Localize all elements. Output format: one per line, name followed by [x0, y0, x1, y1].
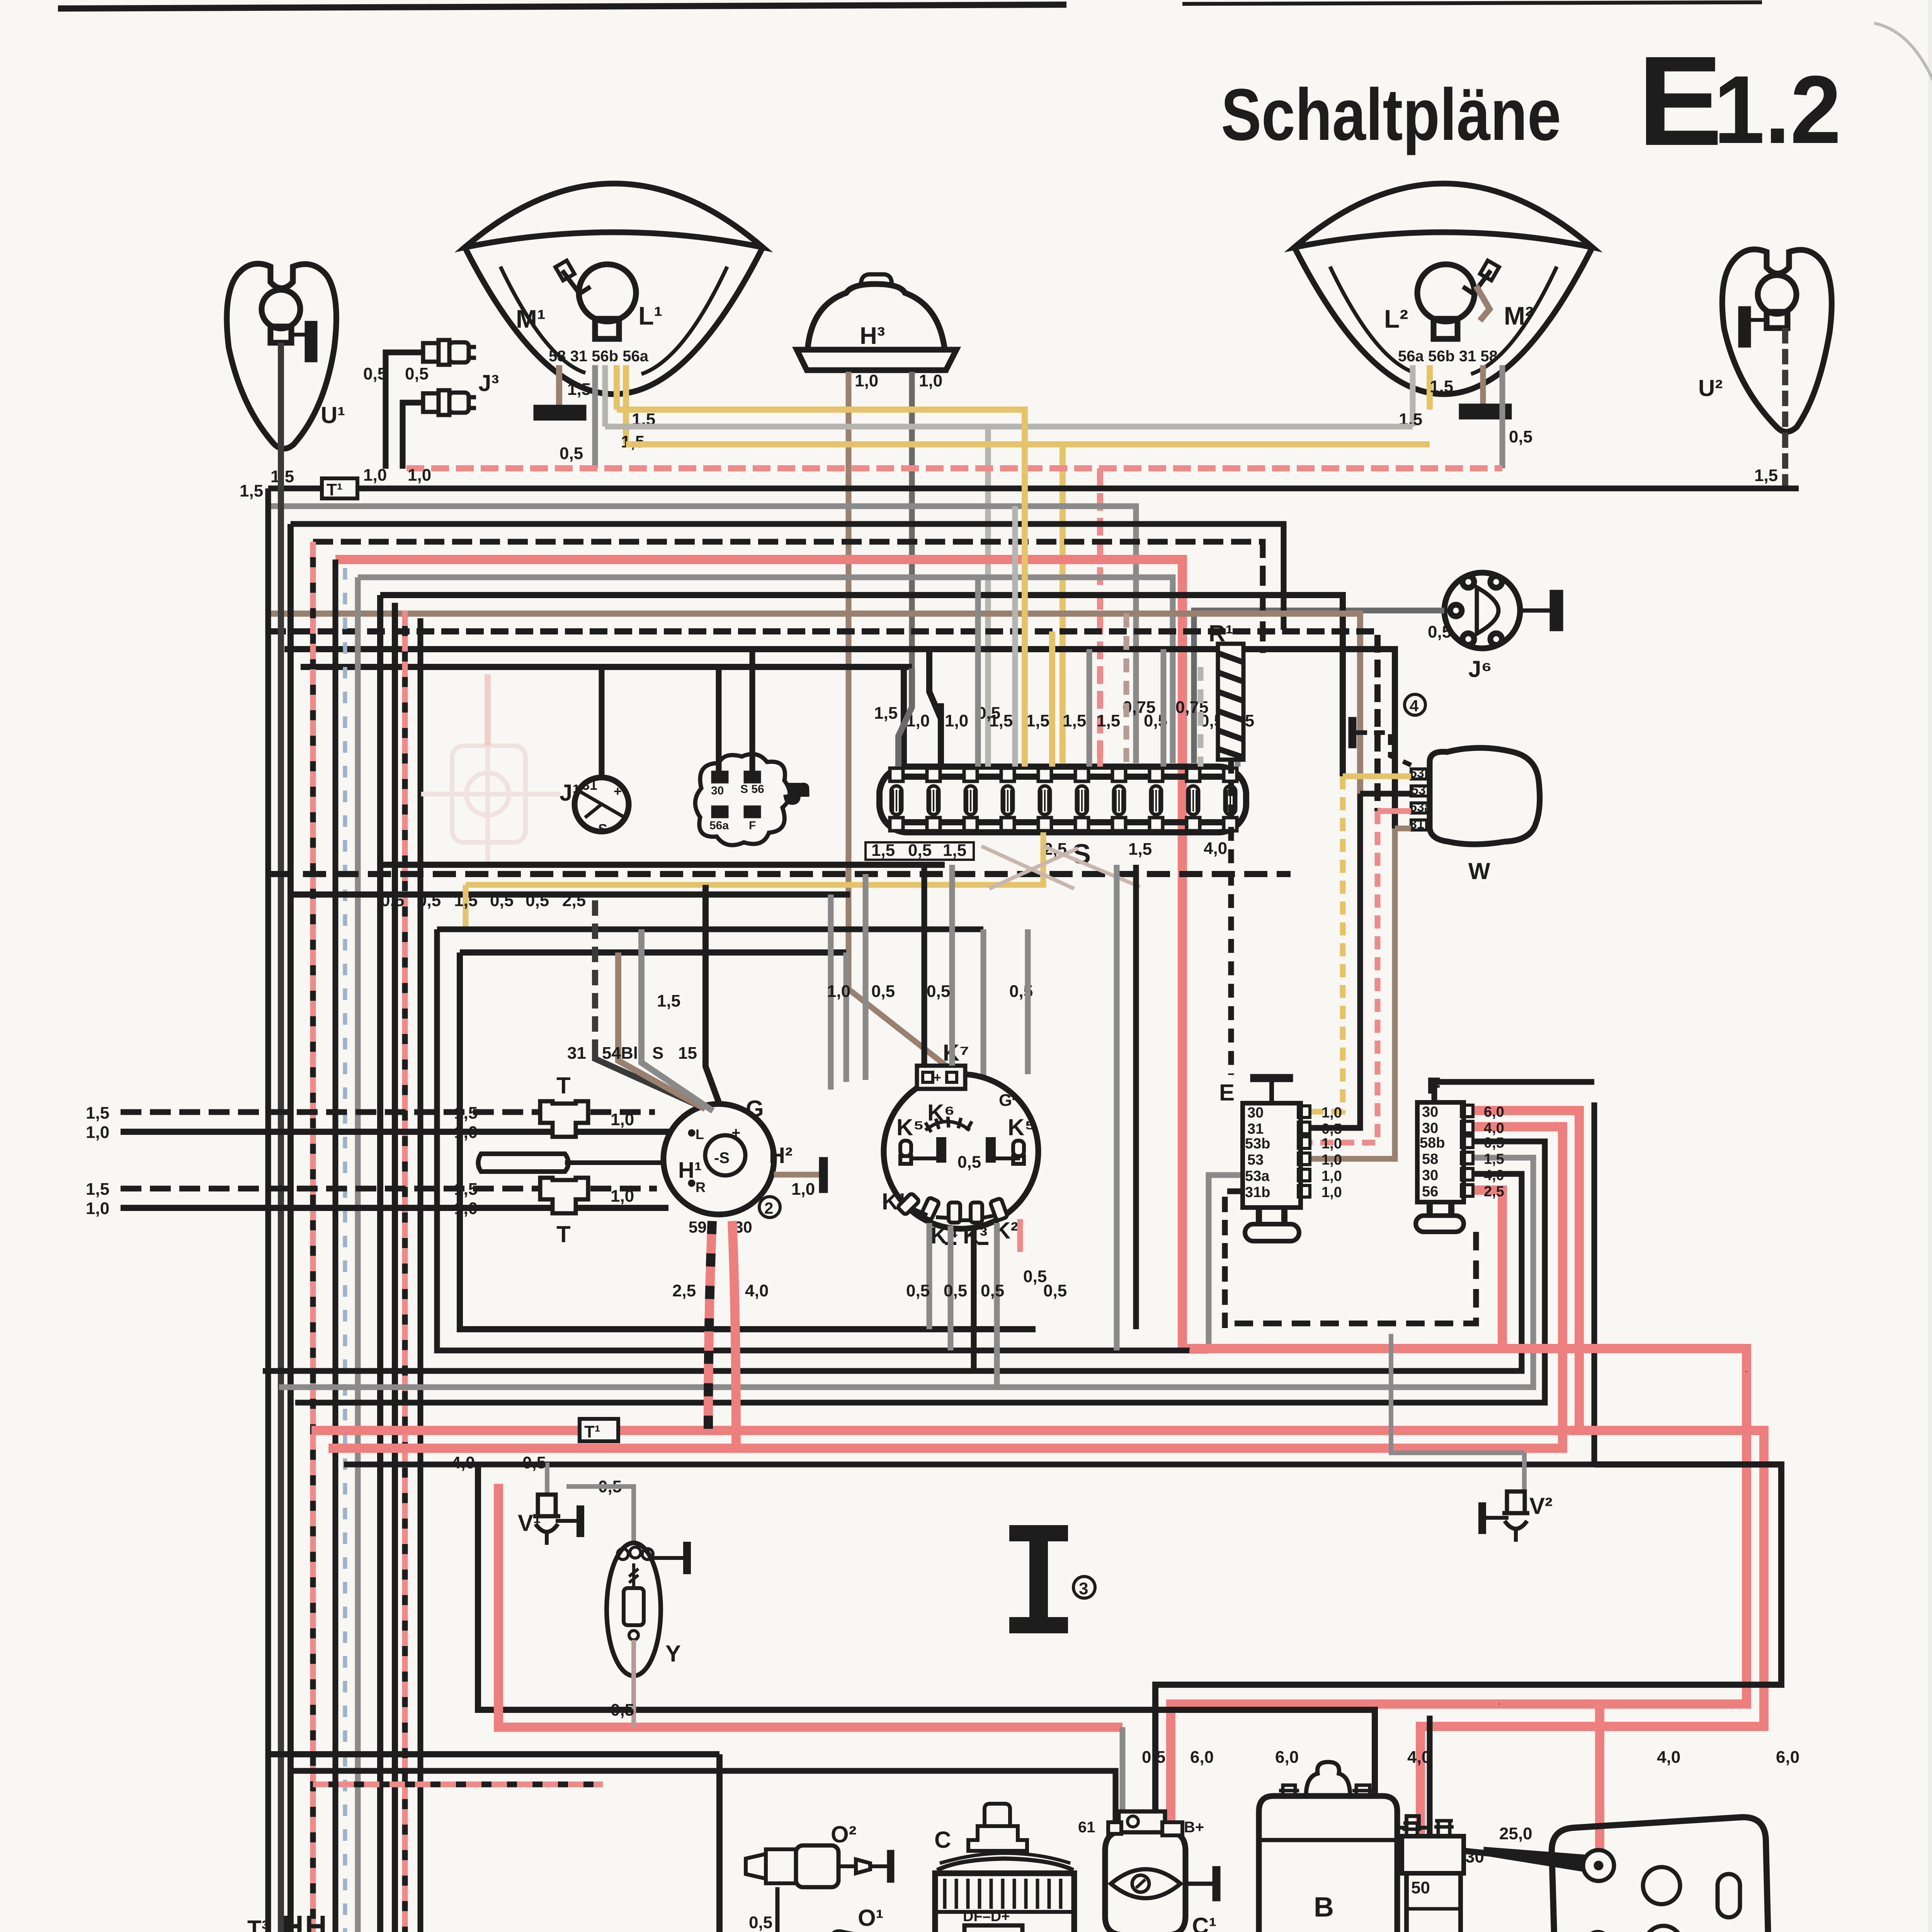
svg-text:0,5: 0,5 — [1321, 1121, 1342, 1137]
svg-text:T: T — [556, 1221, 571, 1247]
svg-text:1,5: 1,5 — [1063, 711, 1086, 730]
svg-text:50: 50 — [1411, 1878, 1430, 1897]
svg-text:0,5: 0,5 — [906, 1281, 930, 1300]
svg-text:U²: U² — [1698, 375, 1723, 401]
svg-text:0,5: 0,5 — [490, 891, 514, 910]
svg-text:1,0: 1,0 — [855, 371, 878, 390]
svg-text:1,5: 1,5 — [454, 1104, 478, 1122]
svg-text:1,0: 1,0 — [1321, 1105, 1342, 1121]
svg-text:1,0: 1,0 — [919, 371, 942, 390]
svg-text:59: 59 — [689, 1218, 707, 1236]
svg-text:K⁵: K⁵ — [1008, 1114, 1036, 1140]
svg-text:1,5: 1,5 — [454, 891, 478, 910]
svg-text:30: 30 — [711, 784, 724, 797]
svg-text:1,5: 1,5 — [657, 992, 680, 1010]
svg-text:K¹: K¹ — [882, 1189, 906, 1214]
svg-text:T¹: T¹ — [584, 1422, 600, 1441]
svg-text:53: 53 — [1247, 1152, 1264, 1168]
svg-text:T³: T³ — [247, 1916, 269, 1932]
svg-text:2,5: 2,5 — [672, 1281, 696, 1300]
svg-text:S: S — [598, 821, 607, 837]
svg-text:4,0: 4,0 — [1484, 1167, 1504, 1184]
svg-text:25,0: 25,0 — [1499, 1824, 1532, 1843]
svg-text:L: L — [696, 1126, 704, 1142]
svg-text:2: 2 — [764, 1199, 773, 1217]
svg-text:6,0: 6,0 — [1190, 1748, 1214, 1767]
svg-text:0,5: 0,5 — [749, 1913, 772, 1932]
svg-text:S 56: S 56 — [740, 783, 764, 796]
svg-text:J³: J³ — [478, 370, 499, 396]
svg-text:30: 30 — [1422, 1167, 1438, 1184]
svg-text:0,5: 0,5 — [1428, 622, 1451, 641]
svg-text:1,0: 1,0 — [791, 1180, 815, 1199]
svg-text:Y: Y — [665, 1641, 681, 1667]
svg-text:V¹: V¹ — [518, 1510, 541, 1536]
svg-text:G: G — [746, 1096, 764, 1122]
svg-text:4,0: 4,0 — [451, 1453, 475, 1472]
svg-text:31: 31 — [582, 777, 597, 793]
svg-text:1,0: 1,0 — [1321, 1184, 1342, 1201]
svg-text:0,5: 0,5 — [908, 841, 932, 860]
svg-text:1,5: 1,5 — [871, 841, 895, 860]
svg-text:1,5: 1,5 — [1484, 1151, 1504, 1167]
svg-text:58 31 56b 56a: 58 31 56b 56a — [549, 348, 649, 365]
svg-text:4: 4 — [1410, 697, 1419, 715]
svg-text:0,5: 0,5 — [405, 364, 429, 383]
svg-text:0,5: 0,5 — [560, 444, 583, 463]
svg-text:61: 61 — [1078, 1819, 1095, 1836]
svg-text:J²: J² — [786, 781, 807, 807]
svg-text:S: S — [652, 1044, 663, 1063]
svg-text:0,5: 0,5 — [1142, 1748, 1165, 1767]
svg-text:31b: 31b — [1245, 1184, 1270, 1201]
svg-text:1,5: 1,5 — [86, 1180, 109, 1199]
svg-text:1,5: 1,5 — [1128, 840, 1152, 859]
svg-text:T¹: T¹ — [327, 480, 343, 499]
svg-text:4,0: 4,0 — [1204, 839, 1227, 858]
svg-text:31b: 31b — [1410, 817, 1432, 832]
svg-text:0,5: 0,5 — [611, 1701, 634, 1719]
svg-text:J¹: J¹ — [560, 780, 580, 806]
svg-text:1,0: 1,0 — [454, 1199, 478, 1218]
svg-text:R¹: R¹ — [1209, 621, 1233, 646]
svg-text:58b: 58b — [1420, 1135, 1445, 1151]
svg-text:54Bl: 54Bl — [602, 1044, 638, 1063]
svg-text:H¹: H¹ — [678, 1158, 702, 1183]
svg-text:+: + — [614, 783, 622, 799]
svg-text:0,5: 0,5 — [1509, 427, 1532, 446]
svg-text:T: T — [556, 1073, 571, 1099]
svg-text:+: + — [731, 1124, 740, 1141]
svg-text:1.2: 1.2 — [1714, 56, 1841, 163]
svg-text:0,5: 0,5 — [522, 1453, 546, 1472]
svg-text:1,0: 1,0 — [454, 1123, 478, 1142]
svg-text:F: F — [1427, 1073, 1441, 1099]
svg-text:G²: G² — [999, 1091, 1018, 1110]
svg-text:53b: 53b — [1410, 766, 1432, 781]
svg-text:DF–D+: DF–D+ — [963, 1908, 1010, 1925]
svg-text:1,5: 1,5 — [1754, 466, 1778, 485]
svg-text:2,5: 2,5 — [562, 891, 586, 910]
svg-text:O²: O² — [831, 1821, 857, 1847]
svg-text:30: 30 — [1247, 1105, 1264, 1121]
svg-text:1,5: 1,5 — [454, 1180, 478, 1199]
svg-text:Schaltpläne: Schaltpläne — [1221, 74, 1561, 156]
svg-text:-S: -S — [714, 1150, 730, 1167]
svg-text:1,5: 1,5 — [1026, 711, 1049, 730]
svg-text:0,5: 0,5 — [526, 891, 549, 910]
svg-text:C: C — [934, 1827, 951, 1853]
svg-text:0,5: 0,5 — [944, 1281, 967, 1300]
svg-text:53a: 53a — [1245, 1168, 1270, 1184]
svg-text:0,5: 0,5 — [871, 982, 895, 1001]
svg-text:15: 15 — [678, 1044, 697, 1063]
svg-text:B+: B+ — [1184, 1819, 1204, 1836]
svg-text:M²: M² — [1504, 301, 1534, 330]
svg-text:58: 58 — [1422, 1151, 1438, 1167]
svg-text:0,5: 0,5 — [927, 982, 950, 1001]
svg-text:53a: 53a — [1410, 800, 1432, 815]
svg-text:53b: 53b — [1245, 1136, 1270, 1152]
svg-text:1,0: 1,0 — [1321, 1152, 1342, 1168]
svg-text:31: 31 — [1247, 1121, 1264, 1137]
svg-text:1,5: 1,5 — [240, 481, 263, 500]
svg-text:1,0: 1,0 — [1321, 1136, 1342, 1152]
svg-text:W: W — [1468, 858, 1490, 884]
svg-text:1,5: 1,5 — [874, 704, 898, 723]
svg-text:1,0: 1,0 — [408, 466, 431, 485]
svg-text:0,5: 0,5 — [417, 891, 441, 910]
svg-text:B: B — [1314, 1892, 1334, 1923]
svg-text:56a: 56a — [709, 819, 729, 832]
svg-text:F: F — [749, 819, 756, 832]
svg-text:1,0: 1,0 — [363, 466, 387, 485]
svg-text:M¹: M¹ — [516, 304, 546, 333]
svg-text:1,0: 1,0 — [611, 1110, 634, 1129]
svg-text:4,0: 4,0 — [745, 1281, 769, 1300]
svg-text:31: 31 — [567, 1044, 586, 1063]
svg-text:O¹: O¹ — [858, 1905, 884, 1931]
svg-text:1,5: 1,5 — [1430, 377, 1453, 396]
svg-text:6,0: 6,0 — [1275, 1748, 1299, 1767]
svg-text:1,5: 1,5 — [943, 841, 966, 860]
svg-text:0,5: 0,5 — [381, 891, 404, 910]
svg-text:0,5: 0,5 — [1484, 1135, 1504, 1151]
svg-text:E: E — [1638, 29, 1723, 172]
svg-text:56a 56b 31 58: 56a 56b 31 58 — [1398, 348, 1498, 365]
svg-text:1,0: 1,0 — [86, 1199, 109, 1218]
svg-text:H²: H² — [769, 1143, 793, 1168]
svg-text:0,5: 0,5 — [1043, 1281, 1067, 1300]
svg-text:53: 53 — [1411, 783, 1426, 798]
svg-text:30: 30 — [1422, 1104, 1438, 1120]
svg-text:4,0: 4,0 — [1407, 1748, 1431, 1767]
svg-text:L¹: L¹ — [638, 301, 662, 330]
svg-text:L²: L² — [1384, 304, 1408, 333]
svg-text:U¹: U¹ — [321, 402, 345, 428]
svg-text:1,0: 1,0 — [827, 982, 850, 1001]
svg-text:1,0: 1,0 — [1321, 1168, 1342, 1184]
svg-text:4,0: 4,0 — [1657, 1748, 1680, 1767]
svg-text:1,0: 1,0 — [945, 711, 968, 730]
svg-text:1,5: 1,5 — [1097, 711, 1120, 730]
svg-text:E: E — [1219, 1080, 1235, 1105]
svg-text:1,5: 1,5 — [989, 711, 1013, 730]
svg-text:J⁶: J⁶ — [1468, 656, 1492, 682]
svg-text:1,5: 1,5 — [86, 1104, 109, 1122]
svg-text:30: 30 — [1422, 1120, 1438, 1136]
svg-text:+: + — [934, 1070, 941, 1085]
svg-text:0,5: 0,5 — [981, 1281, 1004, 1300]
svg-text:2,5: 2,5 — [1484, 1184, 1504, 1200]
svg-text:0,5: 0,5 — [957, 1153, 981, 1172]
svg-text:1,0: 1,0 — [86, 1123, 109, 1142]
svg-text:6,0: 6,0 — [1776, 1748, 1799, 1767]
svg-text:C¹: C¹ — [1192, 1913, 1216, 1932]
svg-text:1,5: 1,5 — [567, 380, 591, 399]
svg-text:6,0: 6,0 — [1484, 1104, 1504, 1120]
svg-text:3: 3 — [1079, 1579, 1088, 1598]
svg-text:V²: V² — [1529, 1493, 1553, 1519]
svg-text:1,0: 1,0 — [611, 1187, 634, 1206]
svg-text:56: 56 — [1422, 1184, 1438, 1200]
svg-text:4,0: 4,0 — [1484, 1120, 1504, 1136]
svg-text:K⁷: K⁷ — [943, 1040, 969, 1066]
svg-text:K⁵: K⁵ — [896, 1114, 924, 1140]
svg-text:H³: H³ — [860, 323, 885, 349]
